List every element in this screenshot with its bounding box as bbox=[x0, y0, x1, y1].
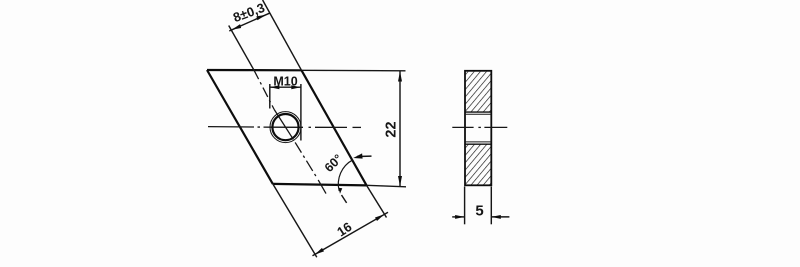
left slanted edge bbox=[207, 70, 273, 184]
right edge extension line for dim 16 bbox=[367, 185, 387, 217]
dim 8+-0,3: left arrowhead bbox=[232, 24, 241, 30]
section outline rectangle bbox=[465, 71, 491, 186]
dim 8+-0,3: dimension line bbox=[229, 13, 269, 31]
dim 22: top arrowhead bbox=[398, 71, 402, 81]
left edge extension line for dim 16 bbox=[273, 184, 317, 257]
dim M10: right extension line bbox=[300, 84, 302, 141]
dim 60deg: lower arrow tail bbox=[342, 195, 347, 203]
dim M10: left arrowhead bbox=[270, 85, 280, 89]
dim 5: left dimension line bbox=[452, 216, 464, 218]
dim 16: left arrowhead bbox=[315, 248, 324, 255]
dim M10: dimension line bbox=[270, 86, 301, 88]
bottom edge of parallelogram bbox=[273, 184, 367, 186]
tapped hole M10: inner circle bbox=[272, 114, 298, 140]
dim 5: right dimension line bbox=[491, 216, 509, 218]
upper hatched area bbox=[466, 72, 491, 113]
side view horizontal centerline bbox=[452, 126, 473, 128]
lower hatched area bbox=[466, 144, 491, 185]
slot axis extension line (solid, above part) bbox=[229, 26, 254, 70]
svg-text:8±0,3: 8±0,3 bbox=[231, 0, 267, 25]
thread lower line bbox=[465, 141, 491, 143]
dim 5: left arrowhead bbox=[455, 215, 465, 219]
hole upper edge line bbox=[465, 111, 491, 113]
dim 5: right extension line bbox=[490, 187, 492, 225]
dim 60deg: angle arc bbox=[338, 160, 353, 191]
right edge extension line for dim 8+-0,3 bbox=[263, 0, 302, 70]
dim 5: left extension line bbox=[464, 187, 466, 225]
slot axis centerline (dash-dot through hole) bbox=[254, 70, 274, 110]
dim 60deg: upper arrowhead bbox=[353, 153, 362, 158]
dim 22: dimension line bbox=[399, 71, 401, 186]
dim 8+-0,3: right arrowhead bbox=[256, 15, 266, 21]
top edge of parallelogram bbox=[207, 69, 302, 72]
svg-text:16: 16 bbox=[334, 219, 354, 239]
dim 16: right arrowhead bbox=[375, 214, 384, 221]
dim 60deg: lower arrowhead bbox=[339, 188, 343, 194]
thread upper line bbox=[465, 113, 491, 115]
dim 5: right arrowhead bbox=[491, 215, 501, 219]
dim 16: dimension line bbox=[313, 212, 389, 256]
right slanted edge bbox=[302, 70, 367, 185]
svg-text:22: 22 bbox=[384, 121, 400, 137]
tapped hole M10: thread major diameter arc bbox=[270, 112, 301, 143]
bottom edge extension line for dim 22 bbox=[367, 185, 407, 187]
dim 22: bottom arrowhead bbox=[398, 176, 402, 186]
dim M10: left extension line bbox=[269, 84, 271, 109]
horizontal centerline through hole bbox=[208, 126, 273, 129]
svg-text:M10: M10 bbox=[273, 75, 297, 89]
dim 60deg: upper arrow tail bbox=[357, 155, 372, 157]
top edge extension line for dim 22 bbox=[302, 69, 406, 72]
hole lower edge line bbox=[465, 143, 491, 145]
svg-text:5: 5 bbox=[475, 202, 483, 219]
dim M10: right arrowhead bbox=[291, 85, 301, 89]
